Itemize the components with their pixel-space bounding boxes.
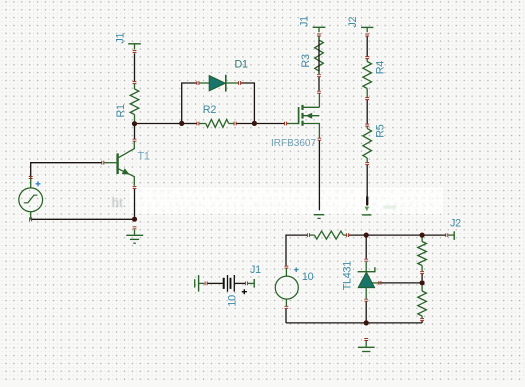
svg-text:D1: D1 <box>235 59 249 71</box>
svg-text:J2: J2 <box>347 16 359 27</box>
svg-text:J1: J1 <box>250 264 261 276</box>
svg-text:www: www <box>382 205 397 211</box>
svg-text:R3: R3 <box>300 54 312 68</box>
svg-text:10: 10 <box>302 271 314 283</box>
svg-text:R2: R2 <box>203 104 217 116</box>
svg-text:R5: R5 <box>374 124 386 138</box>
svg-text:10: 10 <box>226 295 238 307</box>
svg-text:J1: J1 <box>298 16 310 27</box>
svg-text:IRFB3607: IRFB3607 <box>271 138 316 149</box>
svg-text:J2: J2 <box>450 218 461 230</box>
svg-text:R4: R4 <box>374 61 386 75</box>
svg-text:T1: T1 <box>138 151 150 163</box>
svg-text:R1: R1 <box>115 104 127 118</box>
svg-text:J1: J1 <box>114 32 126 43</box>
svg-text:ht: ht <box>112 195 125 211</box>
svg-text:TL431: TL431 <box>341 261 353 291</box>
